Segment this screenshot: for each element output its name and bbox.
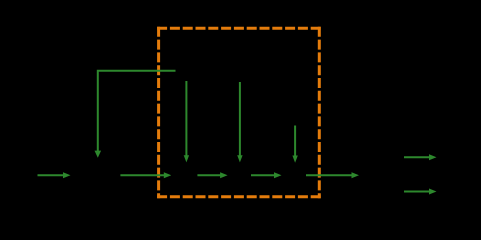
output arrow upper (404, 154, 437, 160)
svg-text:ner: ner (285, 170, 301, 182)
dashed processing-box frame (157, 27, 321, 198)
input arrow (38, 172, 71, 178)
vertical arrow V2 (237, 82, 242, 162)
vertical arrow V3 (292, 126, 297, 163)
box bottom edge (157, 195, 321, 198)
vertical arrow V1 (184, 81, 189, 162)
wire stage1 to stage2 arrow (120, 172, 171, 178)
svg-text:tag: tag (231, 170, 246, 182)
box top edge (157, 27, 321, 30)
box right edge (318, 27, 321, 198)
output arrow lower (404, 189, 437, 195)
invisible stage labels (black on black, as in source) (86, 65, 390, 182)
wire stage3 to stage4 arrow (251, 172, 282, 178)
box left edge (157, 27, 160, 198)
feedback elbow arrow (95, 71, 176, 158)
wire stage4 to output arrow (306, 172, 359, 178)
svg-text:tokenizer: tokenizer (246, 65, 291, 77)
wire stage2 to stage3 arrow (197, 172, 227, 178)
svg-text:doc: doc (372, 170, 390, 182)
svg-text:parse: parse (170, 170, 198, 182)
svg-text:text: text (86, 170, 104, 182)
